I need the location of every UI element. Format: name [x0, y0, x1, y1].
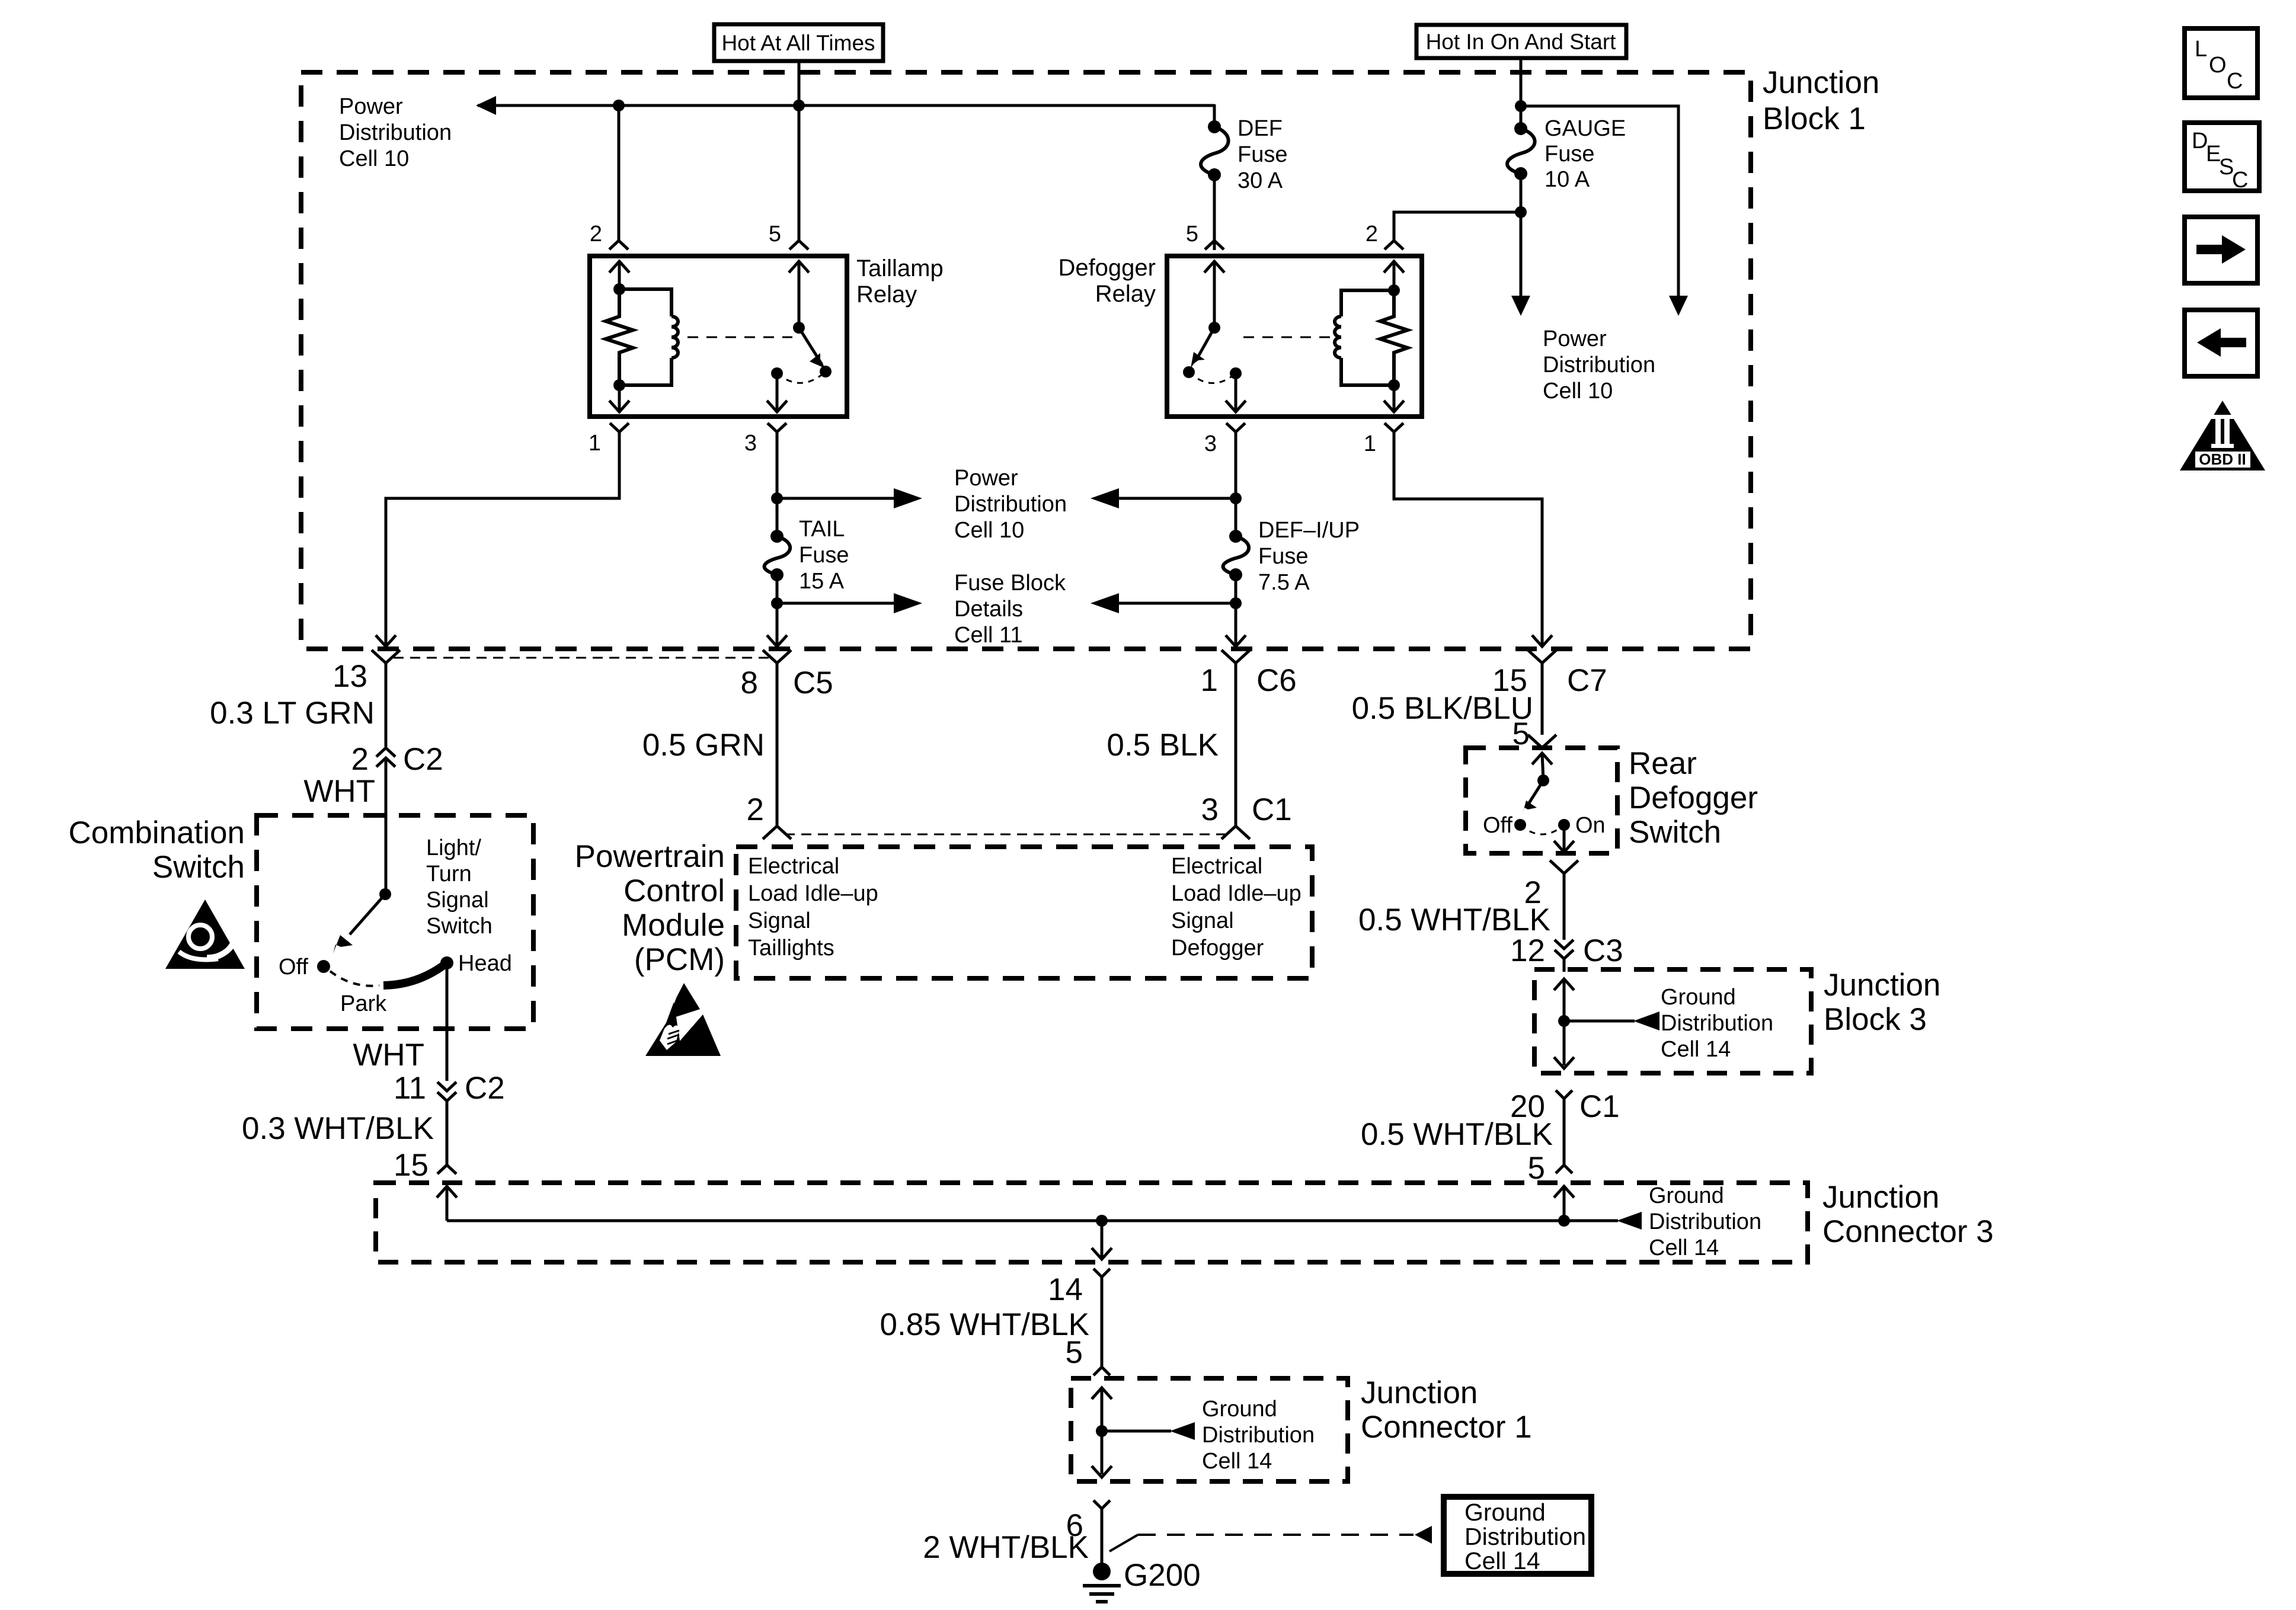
svg-text:0.5 BLK: 0.5 BLK — [1107, 728, 1219, 763]
svg-text:8: 8 — [741, 665, 758, 700]
svg-text:Electrical: Electrical — [748, 854, 839, 879]
svg-text:WHT: WHT — [353, 1038, 424, 1073]
icon DESC box — [2185, 123, 2259, 193]
svg-text:Junction: Junction — [1822, 1180, 1939, 1215]
label Defogger Relay — [1058, 255, 1156, 307]
svg-text:Cell 10: Cell 10 — [1543, 379, 1613, 404]
svg-text:OBD II: OBD II — [2199, 450, 2246, 468]
label DEF-I/UP Fuse 7.5 A — [1258, 518, 1360, 595]
svg-text:0.5 WHT/BLK: 0.5 WHT/BLK — [1358, 902, 1550, 937]
wire: taillamp pin3 down — [776, 432, 779, 536]
dashed reference from G200 to ground distribution — [1109, 1526, 1432, 1551]
rear defogger switch dashed box — [1466, 748, 1617, 853]
svg-text:13: 13 — [332, 659, 367, 694]
defogger relay: pin1 exit arrow — [1384, 385, 1404, 412]
svg-text:Ground: Ground — [1649, 1183, 1724, 1208]
svg-text:0.5 WHT/BLK: 0.5 WHT/BLK — [1361, 1117, 1553, 1152]
svg-text:Distribution: Distribution — [954, 492, 1067, 517]
fuse DEF 30A element — [1201, 127, 1229, 175]
svg-text:12: 12 — [1510, 933, 1545, 968]
switch arm with arrow (light switch) — [333, 894, 385, 953]
svg-text:Relay: Relay — [856, 281, 917, 308]
label Light/Turn Signal Switch — [426, 836, 493, 939]
svg-text:Fuse: Fuse — [1544, 142, 1594, 167]
connector fork 6 — [1093, 1500, 1110, 1571]
svg-text:Turn: Turn — [426, 862, 472, 886]
svg-text:C3: C3 — [1583, 933, 1623, 968]
ESD triangle (PCM) — [645, 983, 721, 1056]
svg-text:Connector 3: Connector 3 — [1822, 1214, 1994, 1249]
arrow at JB1 edge (wire C6-1) — [1226, 635, 1246, 646]
taillamp relay: pin1 exit arrow — [609, 385, 629, 412]
svg-text:10 A: 10 A — [1544, 167, 1590, 192]
resistor (defogger relay) — [1380, 290, 1408, 385]
svg-text:Park: Park — [340, 991, 387, 1016]
label Rear Defogger Switch — [1629, 746, 1758, 850]
arrow at JB1 edge (wire C7-15) — [1532, 635, 1552, 646]
node: bus junction at taillamp coil feed — [613, 100, 625, 111]
svg-text:Junction: Junction — [1763, 65, 1879, 100]
svg-text:Power: Power — [954, 466, 1018, 491]
connector fork pin 1 (below relay) — [610, 423, 629, 432]
svg-text:Signal: Signal — [748, 908, 811, 933]
switch arm with arrow (defogger relay) — [1191, 328, 1214, 368]
SRS triangle (combination switch) — [165, 900, 245, 969]
svg-text:15: 15 — [394, 1148, 428, 1183]
svg-text:Cell 10: Cell 10 — [954, 518, 1024, 543]
svg-text:C: C — [2227, 69, 2243, 94]
icon LOC box — [2185, 28, 2257, 98]
connector fork 14 — [1093, 1269, 1110, 1367]
thin dashed connector line C5 row — [394, 657, 769, 659]
svg-text:11: 11 — [394, 1071, 426, 1106]
node: rds common — [1537, 774, 1549, 786]
svg-text:Distribution: Distribution — [1649, 1209, 1761, 1234]
svg-text:G200: G200 — [1124, 1558, 1201, 1593]
connector fork 20 / C1 — [1556, 1090, 1572, 1165]
junction connector 1 dashed box — [1071, 1378, 1348, 1481]
node: gauge output junction — [1515, 206, 1527, 218]
power source box "Hot At All Times" — [714, 24, 883, 61]
label Power Distribution Cell 10 (top left) — [339, 94, 452, 171]
node: DEF-I/UP fuse top — [1229, 530, 1242, 543]
label DEF Fuse 30 A — [1237, 116, 1287, 193]
svg-text:Cell 10: Cell 10 — [339, 146, 409, 171]
node: TAIL fuse top — [770, 530, 784, 543]
node: tail fuse feed junction — [771, 492, 783, 504]
node: defogger coil bottom — [1388, 379, 1400, 391]
wire: gauge junction to defogger relay pin 2 — [1394, 212, 1521, 241]
svg-text:Module: Module — [622, 908, 725, 943]
label Ground Distribution Cell 14 (JB3) — [1661, 985, 1773, 1062]
wire to Fuse Block Details arrow — [777, 602, 896, 605]
connector fork 1 / C6 — [1221, 650, 1250, 826]
svg-text:C5: C5 — [793, 665, 833, 700]
label Ground Distribution Cell 14 (JC1) — [1202, 1397, 1315, 1474]
connector fork pin 3 (below relay) — [768, 423, 786, 432]
junction block 3 dashed box — [1534, 969, 1811, 1073]
wire: drop to taillamp relay pin 2 — [618, 105, 621, 241]
connector fork pin 5 (defogger relay) — [1205, 241, 1224, 249]
resistor (taillamp relay) — [606, 289, 633, 385]
JC3: center exit arrow — [1092, 1221, 1112, 1259]
dashed actuation link (taillamp relay) — [687, 337, 792, 338]
svg-text:O: O — [2209, 53, 2227, 78]
label GAUGE Fuse 10 A — [1544, 116, 1626, 192]
svg-text:Off: Off — [279, 955, 308, 980]
node: JC1 ground junction — [1096, 1425, 1108, 1437]
wire: defogger pin3 down — [1235, 432, 1237, 536]
node: Head contact (comb switch) — [440, 956, 453, 969]
wire to Power Distribution arrow — [777, 497, 896, 500]
icon left-arrow box — [2185, 310, 2257, 376]
node: JC3 bus center junction — [1096, 1215, 1108, 1227]
svg-text:1: 1 — [1364, 431, 1376, 456]
dashed arc Off to Park — [330, 971, 379, 986]
wire: below DEF-I/UP fuse — [1235, 575, 1237, 645]
connector fork at PCM (pin 2) — [763, 826, 791, 839]
svg-text:Fuse: Fuse — [1258, 544, 1308, 569]
arrow at JB1 edge (wire 8) — [767, 635, 787, 646]
thick arc Park to Head (wiper) — [383, 963, 447, 985]
fuse DEF-I/UP 7.5A element — [1223, 536, 1249, 575]
svg-text:Taillights: Taillights — [748, 936, 834, 961]
svg-text:15 A: 15 A — [799, 569, 845, 594]
node: switch common (defogger relay) — [1208, 322, 1220, 334]
svg-text:(PCM): (PCM) — [634, 942, 725, 977]
svg-text:Taillamp: Taillamp — [856, 255, 944, 281]
svg-text:Distribution: Distribution — [339, 120, 452, 145]
connector fork 2 (below rds) — [1550, 860, 1578, 940]
dashed throw arc (taillamp relay) — [777, 372, 826, 383]
svg-text:5: 5 — [1186, 222, 1198, 247]
label Junction Block 3 — [1824, 968, 1940, 1037]
svg-text:0.3 WHT/BLK: 0.3 WHT/BLK — [242, 1111, 434, 1146]
svg-text:Cell 14: Cell 14 — [1661, 1037, 1731, 1062]
svg-text:Signal: Signal — [1171, 908, 1234, 933]
ground distribution cell 14 box (solid) — [1444, 1497, 1591, 1574]
svg-text:3: 3 — [1204, 431, 1217, 456]
node: taillamp coil bottom — [613, 379, 625, 391]
wire: branch right from hot-in-on junction — [1521, 106, 1678, 296]
wire from arrow to junction 2 — [1117, 602, 1236, 605]
dashed throw arc (defogger relay) — [1189, 372, 1236, 383]
svg-text:Power: Power — [1543, 327, 1607, 351]
arrow right (fuse block details) — [894, 593, 922, 613]
thin dashed PCM top line — [785, 834, 1228, 836]
fuse GAUGE 10A element — [1507, 129, 1535, 174]
coil (defogger relay) — [1335, 316, 1341, 358]
svg-text:Details: Details — [954, 597, 1023, 622]
svg-text:0.3 LT GRN: 0.3 LT GRN — [210, 696, 375, 731]
svg-text:C2: C2 — [403, 742, 443, 777]
svg-text:Signal: Signal — [426, 888, 489, 913]
taillamp relay: pin3 exit arrow — [767, 373, 787, 412]
svg-text:Connector 1: Connector 1 — [1361, 1410, 1532, 1445]
svg-text:Head: Head — [458, 951, 512, 976]
junction connector 3 dashed box — [376, 1183, 1808, 1262]
connector fork 5 (into rear defogger switch) — [1528, 735, 1556, 748]
svg-text:Cell 14: Cell 14 — [1202, 1449, 1272, 1474]
svg-text:On: On — [1575, 813, 1606, 838]
taillamp relay box — [590, 256, 847, 417]
JC3: left entry arrow — [437, 1186, 457, 1221]
connector fork pin 2 (defogger relay) — [1384, 241, 1403, 249]
svg-text:Distribution: Distribution — [1464, 1523, 1586, 1550]
svg-text:DEF–I/UP: DEF–I/UP — [1258, 518, 1360, 543]
node: hot-in-on junction — [1515, 100, 1527, 112]
PCM dashed box — [736, 847, 1312, 978]
svg-text:L: L — [2195, 37, 2207, 62]
svg-text:1: 1 — [1201, 663, 1218, 698]
svg-text:Powertrain: Powertrain — [575, 839, 725, 874]
svg-text:Power: Power — [339, 94, 403, 119]
node: DEF-I/UP feed junction — [1230, 492, 1242, 504]
svg-text:TAIL: TAIL — [799, 517, 845, 542]
svg-text:Cell 14: Cell 14 — [1464, 1547, 1540, 1574]
svg-text:2: 2 — [747, 792, 764, 827]
arrow right (power distribution cell 10) — [894, 488, 922, 508]
label Taillamp Relay — [856, 255, 944, 308]
defogger relay: pin3 exit arrow — [1226, 373, 1246, 412]
wire: gauge fuse lead — [1520, 106, 1523, 129]
label Powertrain Control Module (PCM) — [575, 839, 725, 977]
svg-text:Defogger: Defogger — [1171, 936, 1264, 961]
connector fork 5 (into JC3 right) — [1556, 1165, 1572, 1173]
svg-text:Distribution: Distribution — [1661, 1011, 1773, 1036]
svg-text:2: 2 — [351, 742, 369, 777]
connector C3 double chevron (pin 12) — [1555, 940, 1574, 972]
node: switch output contact — [771, 367, 783, 379]
wire: below TAIL fuse — [776, 575, 779, 645]
wire: Head contact down and out of box — [446, 963, 449, 1081]
wire and arrow to ground distribution (JB3) — [1564, 1012, 1659, 1030]
svg-text:1: 1 — [589, 431, 601, 456]
svg-text:GAUGE: GAUGE — [1544, 116, 1626, 141]
arrow down (right power distribution feed) — [1669, 296, 1688, 316]
wire: bus corner down to DEF fuse — [1213, 104, 1216, 127]
JC3: right entry arrow — [1554, 1186, 1574, 1221]
connector fork pin 2 — [609, 241, 628, 249]
defogger relay: pin5 entry arrow and switch common — [1204, 261, 1224, 328]
svg-text:Control: Control — [623, 873, 725, 908]
node: taillamp coil top — [613, 283, 625, 295]
arrow left (power distribution cell 10) — [1091, 488, 1119, 508]
node: switch arm tip contact — [820, 366, 832, 377]
JB3: entry arrow — [1554, 979, 1574, 1065]
label Power Distribution Cell 10 (right) — [1543, 327, 1655, 404]
dashed actuation link (defogger relay) — [1243, 337, 1334, 338]
wire: main bus y=173 — [478, 104, 1214, 107]
coil branch wiring (defogger relay) — [1341, 290, 1394, 385]
svg-text:C7: C7 — [1567, 663, 1607, 698]
node: DEF fuse top — [1208, 120, 1221, 133]
wire and arrow to ground distribution (JC1) — [1102, 1422, 1195, 1440]
svg-text:Junction: Junction — [1361, 1375, 1478, 1410]
node: Off contact (rds) — [1514, 819, 1526, 831]
svg-text:C2: C2 — [465, 1071, 505, 1106]
svg-text:Defogger: Defogger — [1058, 255, 1156, 281]
wire from arrow to DEF-I/UP junction — [1117, 497, 1236, 500]
svg-text:0.5 BLK/BLU: 0.5 BLK/BLU — [1352, 691, 1533, 726]
svg-text:Load Idle–up: Load Idle–up — [1171, 881, 1302, 906]
junction block JB1 (dashed outline) — [301, 72, 1751, 649]
svg-text:5: 5 — [769, 222, 781, 247]
svg-text:0.5 GRN: 0.5 GRN — [642, 728, 765, 763]
JC1: entry arrow — [1092, 1388, 1112, 1474]
ground G200 symbol — [1083, 1563, 1121, 1602]
node: switch arm tip contact (defogger) — [1183, 366, 1195, 378]
label Junction Block 1 — [1763, 65, 1879, 136]
arrow left (fuse block details) — [1091, 593, 1119, 613]
svg-text:DEF: DEF — [1237, 116, 1283, 141]
node: fuse block details junction 2 — [1230, 597, 1242, 609]
label Electrical Load Idle-up Signal Defogger — [1171, 854, 1302, 961]
node: On contact (rds) — [1558, 819, 1570, 831]
svg-text:0.85 WHT/BLK: 0.85 WHT/BLK — [880, 1307, 1089, 1342]
svg-text:Cell 14: Cell 14 — [1649, 1235, 1719, 1260]
connector C2 double chevron (pin 2) — [376, 748, 395, 894]
switch arm with arrow (rds) — [1522, 780, 1543, 816]
node: defogger coil top — [1388, 284, 1400, 296]
connector fork 13 — [372, 650, 400, 747]
node: DEF fuse bottom — [1208, 168, 1221, 181]
node: JC3 bus right junction — [1558, 1215, 1570, 1227]
node: Off contact (comb switch) — [317, 960, 330, 973]
svg-text:Light/: Light/ — [426, 836, 481, 860]
wire: defogger pin1 to C7 — [1394, 432, 1542, 645]
icon right-arrow box — [2185, 217, 2257, 283]
wire: DEF fuse to defogger relay pin 5 — [1213, 175, 1216, 250]
node: bus junction at hot-at-all-times drop — [793, 100, 805, 111]
svg-text:Switch: Switch — [152, 850, 245, 885]
svg-text:Distribution: Distribution — [1202, 1423, 1315, 1448]
svg-text:Hot At All Times: Hot At All Times — [721, 31, 875, 55]
arrow to Power Distribution Cell 10 (left) — [476, 96, 496, 115]
arrow at JB1 edge (wire 13) — [376, 635, 396, 646]
svg-text:C6: C6 — [1256, 663, 1297, 698]
coil (taillamp relay) — [671, 316, 678, 358]
label Junction Connector 3 — [1822, 1180, 1994, 1249]
label Combination Switch — [68, 815, 245, 885]
node: JB3 ground junction — [1558, 1015, 1570, 1027]
wire: JC3 ground bus — [447, 1219, 1564, 1222]
svg-text:C1: C1 — [1252, 792, 1292, 827]
connector fork 15 (into JC3) — [437, 1165, 456, 1174]
node: GAUGE fuse top — [1514, 122, 1527, 135]
svg-text:Ground: Ground — [1464, 1499, 1546, 1526]
wire: Hot In On And Start drop — [1520, 59, 1523, 106]
wire: below gauge fuse — [1520, 174, 1523, 296]
connector C2 double chevron (pin 11) — [437, 1082, 456, 1165]
power source box "Hot In On And Start" — [1416, 25, 1626, 58]
label Power Distribution Cell 10 (middle) — [954, 466, 1067, 543]
node: GAUGE fuse bottom — [1514, 167, 1527, 180]
svg-text:Switch: Switch — [1629, 815, 1721, 850]
svg-text:Electrical: Electrical — [1171, 854, 1262, 879]
wire: drop to taillamp relay pin 5 — [798, 105, 801, 241]
svg-text:Ground: Ground — [1202, 1397, 1277, 1422]
svg-text:Distribution: Distribution — [1543, 353, 1655, 377]
svg-text:C: C — [2232, 168, 2248, 193]
svg-text:Load Idle–up: Load Idle–up — [748, 881, 878, 906]
node: DEF-I/UP fuse bottom — [1229, 568, 1242, 581]
svg-text:Fuse: Fuse — [799, 543, 849, 568]
svg-text:3: 3 — [744, 431, 757, 456]
dashed throw arc (rds) — [1520, 825, 1564, 834]
svg-text:Block 3: Block 3 — [1824, 1002, 1927, 1037]
JB3: exit arrow — [1554, 1057, 1574, 1068]
defogger relay box — [1167, 256, 1422, 417]
svg-text:Off: Off — [1483, 813, 1512, 838]
connector fork pin 5 — [789, 241, 808, 249]
connector fork 15 / C7 — [1528, 650, 1556, 735]
label Fuse Block Details Cell 11 — [954, 571, 1066, 648]
wire: Hot At All Times feed drop — [798, 61, 801, 105]
connector fork 8 / C5 — [763, 650, 791, 826]
svg-text:WHT: WHT — [303, 774, 375, 809]
svg-text:Combination: Combination — [68, 815, 245, 850]
connector fork pin 3 (below defogger relay) — [1226, 423, 1245, 432]
connector fork at PCM (pin 3) — [1221, 826, 1250, 839]
wire: taillamp pin1 to connector 13 — [386, 432, 619, 645]
connector fork 5 (into JC1) — [1093, 1367, 1110, 1375]
svg-text:2: 2 — [590, 222, 602, 247]
svg-text:Fuse: Fuse — [1237, 142, 1287, 167]
taillamp relay: pin2 entry arrow — [609, 261, 629, 292]
svg-text:14: 14 — [1048, 1272, 1083, 1307]
rear defogger switch: entry arrow — [1532, 753, 1552, 780]
node: switch output contact (defogger) — [1230, 367, 1242, 379]
svg-text:Relay: Relay — [1095, 281, 1156, 307]
taillamp relay: pin5 entry arrow and switch common — [789, 261, 809, 328]
label Ground Distribution Cell 14 (JC3) — [1649, 1183, 1761, 1260]
svg-text:5: 5 — [1066, 1335, 1083, 1370]
label Electrical Load Idle-up Signal Taillights — [748, 854, 878, 961]
fuse TAIL 15A element — [765, 536, 791, 575]
svg-text:Rear: Rear — [1629, 746, 1697, 781]
combination switch dashed box — [257, 815, 533, 1029]
svg-text:Fuse Block: Fuse Block — [954, 571, 1066, 596]
rds: exit arrow from On — [1554, 825, 1574, 852]
svg-text:7.5 A: 7.5 A — [1258, 570, 1310, 595]
connector fork pin 1 (below defogger relay) — [1384, 423, 1403, 432]
switch arm with arrow (taillamp relay) — [799, 328, 824, 368]
svg-text:Cell 11: Cell 11 — [954, 623, 1022, 648]
svg-text:3: 3 — [1201, 792, 1219, 827]
svg-text:C1: C1 — [1579, 1089, 1620, 1124]
JC1: exit arrow — [1092, 1466, 1112, 1477]
defogger relay: pin2 entry arrow — [1384, 261, 1404, 293]
svg-text:30 A: 30 A — [1237, 168, 1283, 193]
label Junction Connector 1 — [1361, 1375, 1532, 1445]
icon OBD II triangle — [2180, 401, 2265, 470]
wire and arrow to ground distribution (JC3) — [1564, 1212, 1642, 1230]
node: TAIL fuse bottom — [770, 568, 784, 581]
svg-text:Switch: Switch — [426, 914, 493, 939]
svg-text:Block 1: Block 1 — [1763, 101, 1866, 136]
node: light switch input — [379, 888, 391, 900]
arrow down (left power distribution feed) — [1511, 296, 1530, 316]
svg-text:2 WHT/BLK: 2 WHT/BLK — [923, 1530, 1089, 1565]
svg-text:Ground: Ground — [1661, 985, 1736, 1010]
label TAIL Fuse 15 A — [799, 517, 849, 594]
coil branch wiring (taillamp relay) — [619, 289, 671, 385]
node: fuse block details junction — [771, 597, 783, 609]
node: switch common (taillamp relay) — [793, 322, 805, 334]
svg-text:Defogger: Defogger — [1629, 780, 1758, 815]
svg-text:2: 2 — [1366, 222, 1378, 247]
